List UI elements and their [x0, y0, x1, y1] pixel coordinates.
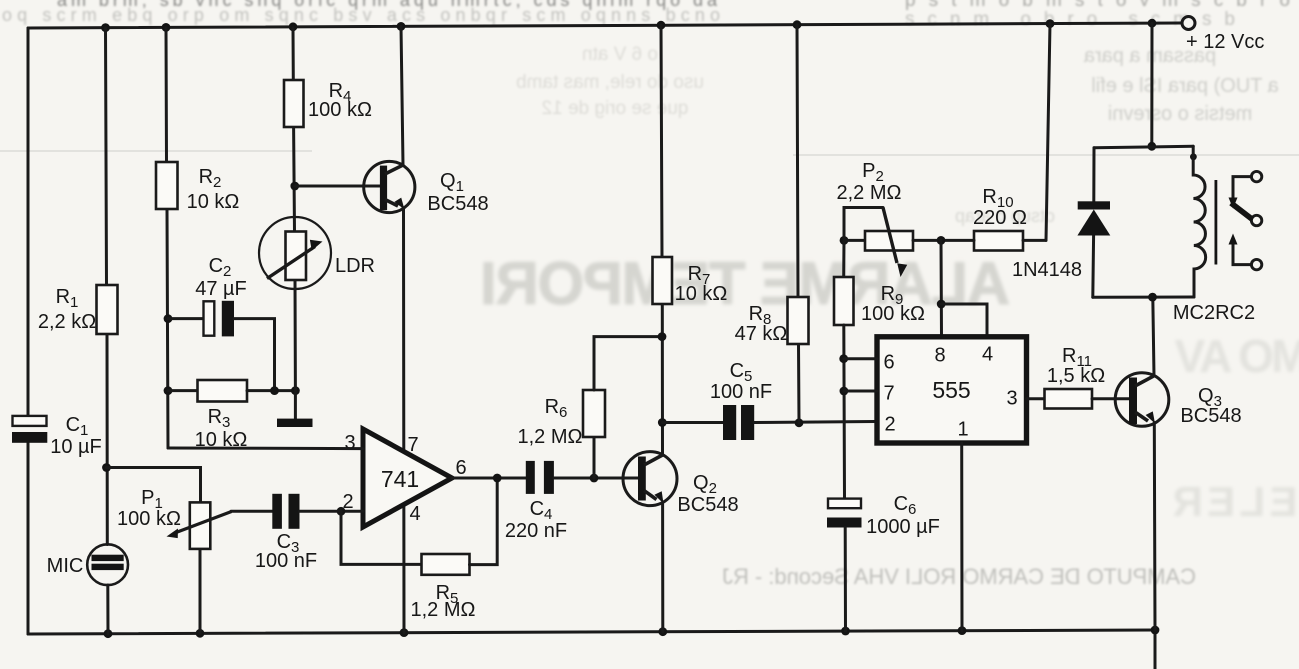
svg-text:4: 4 [409, 503, 420, 525]
mirrored show-through paragraph, centre column [516, 44, 704, 119]
svg-text:6: 6 [883, 352, 894, 374]
svg-text:CAMPUTO DE CARMO ROLI VHA Sec: CAMPUTO DE CARMO ROLI VHA Second: - RJ [722, 564, 1196, 589]
svg-text:uso do rele, mas tamb: uso do rele, mas tamb [516, 72, 704, 93]
svg-text:2,2 MΩ: 2,2 MΩ [837, 182, 902, 204]
wire: +12V drop to relay [1150, 23, 1153, 146]
node: P2 right / pin8 junction [937, 236, 946, 245]
svg-text:220 Ω: 220 Ω [973, 207, 1027, 229]
svg-text:Q1: Q1 [440, 170, 464, 195]
wire: relay bottom bar [1093, 296, 1194, 299]
node: R3 left junction [164, 386, 173, 395]
resistor R4 [284, 80, 304, 127]
wire: down to ground bar [294, 391, 297, 419]
svg-text:47 µF: 47 µF [195, 278, 247, 300]
svg-text:LDR: LDR [335, 255, 375, 277]
transistor Q1 [364, 161, 415, 212]
wire: 741 output [452, 477, 526, 480]
svg-text:3: 3 [1006, 388, 1017, 410]
svg-text:ELER: ELER [1173, 478, 1298, 525]
node: coil top small junction [1190, 153, 1197, 160]
svg-text:2,2 kΩ: 2,2 kΩ [38, 311, 96, 333]
svg-text:10 kΩ: 10 kΩ [187, 191, 240, 213]
node: R1 to P1 tap [102, 463, 111, 472]
wire: tap to P1 top [107, 468, 201, 503]
wire: pin 7 lead [844, 390, 877, 393]
LDR [259, 217, 331, 289]
resistor R8 [788, 297, 809, 344]
capacitor C2 (electrolytic) [204, 301, 215, 335]
wire: pin 8 drop [940, 240, 944, 336]
wire: bottom stub below rail at Q3 emitter [1154, 630, 1157, 669]
wire: R4/LDR branch vertical [292, 28, 295, 80]
svg-text:1: 1 [957, 419, 968, 441]
svg-text:1,2 MΩ: 1,2 MΩ [518, 426, 583, 448]
relay NO contact lead [1233, 244, 1251, 265]
wire: pin 3 output lead [1027, 397, 1045, 400]
svg-text:a TUO) para ISl e efil: a TUO) para ISl e efil [1091, 75, 1278, 97]
capacitor C6 (electrolytic) [828, 499, 861, 509]
resistor R7 [653, 257, 673, 304]
svg-text:100 kΩ: 100 kΩ [308, 99, 372, 121]
svg-text:10 µF: 10 µF [50, 436, 102, 458]
svg-text:BC548: BC548 [427, 193, 488, 215]
wire: Q2 emitter to rail [661, 503, 664, 632]
resistor R3 [168, 389, 198, 392]
terminal +12 Vcc [1182, 17, 1195, 30]
resistor R2 [156, 162, 178, 209]
resistor R9 [842, 240, 845, 277]
capacitor C3 [231, 510, 272, 513]
svg-text:3: 3 [344, 432, 355, 454]
ground [277, 419, 313, 427]
wire: bottom 0V rail [28, 630, 1155, 634]
svg-text:100 nF: 100 nF [255, 550, 317, 572]
wire: relay top bar [1094, 146, 1193, 147]
svg-text:metsis o osrevni: metsis o osrevni [1108, 103, 1253, 125]
svg-text:8: 8 [934, 345, 945, 367]
node: output junction [493, 474, 502, 483]
node: pin2 / C3 / R5 junction [337, 507, 346, 516]
node: pin 6 junction [839, 354, 848, 363]
relay NC contact lead [1233, 177, 1251, 198]
svg-text:7: 7 [407, 434, 418, 456]
svg-text:47 kΩ: 47 kΩ [735, 323, 788, 345]
wire: Q3 emitter down to rail [1153, 423, 1157, 631]
svg-text:R6: R6 [545, 396, 568, 421]
transistor Q3 [1115, 373, 1169, 427]
wire: left supply edge [27, 28, 30, 416]
svg-text:BC548: BC548 [1180, 405, 1241, 427]
svg-text:7: 7 [883, 383, 894, 405]
potentiometer P1 [190, 502, 211, 549]
node: R8 bottom junction [795, 418, 804, 427]
capacitor C4 [526, 461, 535, 494]
relay coil MC2RC2 [1193, 146, 1205, 297]
microphone MIC [87, 544, 128, 585]
node: C2 left junction [164, 314, 173, 323]
wire: Q1 collector up to rail [401, 26, 403, 164]
wire: C2 right lead down to R3 right [234, 319, 275, 391]
node: pin 7 junction [840, 387, 849, 396]
IC 555 [877, 337, 1027, 443]
node: junction on LDR line [291, 386, 300, 395]
svg-text:1,5 kΩ: 1,5 kΩ [1047, 365, 1105, 387]
op-amp U1 741 [363, 429, 452, 527]
svg-text:1000 µF: 1000 µF [866, 516, 940, 538]
wire: pin 4 branch [941, 304, 987, 337]
node: C2/R3 right junction [270, 386, 279, 395]
diode 1N4148 [1078, 201, 1110, 209]
wire: diode branch [1092, 148, 1095, 202]
node: bottom rail junction dots [104, 629, 113, 638]
capacitor C5 [662, 421, 723, 424]
potentiometer P2 [840, 236, 849, 245]
relay armature [1231, 203, 1253, 220]
svg-text:C6: C6 [894, 493, 917, 518]
wire: P1 bottom to rail [199, 549, 202, 633]
wire: feedback loop down-right [341, 511, 422, 564]
wire: Q1 emitter down through 741 to bottom rail [402, 209, 406, 633]
node: Q1 base tap [290, 182, 299, 191]
node: relay bottom junction [1148, 293, 1157, 302]
svg-text:ALARME TEMPORI: ALARME TEMPORI [480, 250, 1010, 317]
svg-text:1N4148: 1N4148 [1012, 259, 1082, 281]
node: C5 tap junction [658, 418, 667, 427]
resistor R11 [1045, 389, 1093, 409]
svg-text:6: 6 [455, 457, 466, 479]
svg-text:MC2RC2: MC2RC2 [1173, 302, 1255, 324]
svg-text:220 nF: 220 nF [505, 520, 567, 542]
node: pin 4 branch junction [937, 300, 946, 309]
svg-text:R3: R3 [208, 406, 231, 431]
svg-text:MIC: MIC [47, 555, 84, 577]
svg-text:100 kΩ: 100 kΩ [861, 303, 925, 325]
node: R6 top junction [658, 332, 667, 341]
node: top rail junction dots [101, 23, 110, 32]
svg-text:100 nF: 100 nF [710, 381, 772, 403]
svg-text:4: 4 [982, 344, 993, 366]
wire: R1/MIC branch vertical [106, 28, 107, 285]
wire: R8 branch vertical [797, 25, 798, 297]
relay core bar [1215, 180, 1218, 265]
resistor R10 [974, 231, 1023, 251]
transistor Q2 [623, 452, 677, 506]
svg-text:o 6 V atn: o 6 V atn [582, 44, 658, 65]
svg-text:100 kΩ: 100 kΩ [117, 508, 181, 530]
svg-text:R1: R1 [56, 286, 79, 311]
wire: R10 right to top rail [1046, 24, 1050, 241]
svg-text:10 kΩ: 10 kΩ [675, 283, 728, 305]
wire: pin 3 input [168, 447, 363, 451]
relay contact terminals [1251, 171, 1261, 181]
capacitor C1 [13, 416, 47, 426]
svg-text:+ 12 Vcc: + 12 Vcc [1186, 31, 1264, 53]
svg-text:555: 555 [932, 377, 970, 403]
svg-text:C2: C2 [209, 255, 232, 280]
node: relay top junction [1147, 142, 1156, 151]
faint column rule left [0, 150, 312, 152]
wire: Q3 collector up to relay [1153, 297, 1154, 376]
svg-text:1,2 MΩ: 1,2 MΩ [411, 599, 476, 621]
wire: Q1 base lead [295, 185, 380, 188]
wire: R5 right up to output [470, 478, 498, 565]
resistor R1 [97, 285, 118, 334]
wire: C2 left lead [168, 317, 204, 320]
resistor R5 [422, 554, 470, 575]
svg-text:oq scrm ebq orp om sqnc bsv ac: oq scrm ebq orp om sqnc bsv acs onbqr sc… [2, 5, 720, 25]
wire: R2 branch vertical [165, 28, 169, 162]
wire: R7 branch vertical [661, 25, 662, 257]
wire: pin 2 input [341, 510, 363, 513]
faint column rule right [793, 154, 1299, 156]
wire: pin 1 to rail [960, 443, 963, 631]
svg-text:que se orig de 12: que se orig de 12 [542, 98, 689, 119]
svg-text:MO AV: MO AV [1174, 330, 1299, 382]
svg-text:BC548: BC548 [677, 494, 738, 516]
resistor R6 [590, 474, 599, 483]
wire: top +12V rail [28, 23, 1182, 28]
wire: pin 6 lead [844, 357, 877, 360]
svg-text:R2: R2 [199, 166, 222, 191]
mirrored show-through paragraph, right column [955, 45, 1279, 226]
svg-text:2: 2 [884, 414, 895, 436]
svg-text:741: 741 [381, 466, 419, 492]
